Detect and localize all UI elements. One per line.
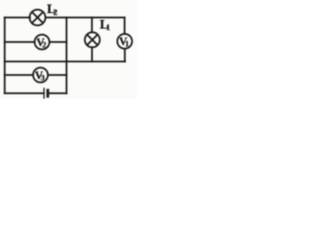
svg-text:1: 1 [106,22,110,32]
wire battery row right [49,92,67,94]
wire V2 row left [5,41,35,43]
svg-text:2: 2 [42,40,46,49]
wire middle vertical [66,18,68,94]
svg-text:2: 2 [53,7,57,17]
svg-text:3: 3 [41,73,45,82]
wire V1 bottom stub [124,49,126,62]
battery long plate [43,88,45,98]
lamp L2 [30,10,46,26]
voltmeter V2 circle [35,35,50,50]
wire top row left of lamp L2 [5,17,30,19]
voltmeter V1 circle [117,34,132,49]
wire row 3 [5,61,125,63]
wire V3 row right [48,74,67,76]
battery short thick plate [46,90,49,96]
wire V1 top stub [124,18,126,34]
wire V2 row right [49,41,66,43]
wire top row right of lamp L2 [45,17,124,19]
svg-text:1: 1 [125,40,129,49]
wire L1 bottom stub [91,47,93,61]
wire V3 row left [5,74,34,76]
wire left vertical [4,18,6,94]
voltmeter V3 circle [33,68,48,83]
wire L1 top stub [91,18,93,33]
wire battery row left [5,92,44,94]
lamp L1 [85,32,100,47]
